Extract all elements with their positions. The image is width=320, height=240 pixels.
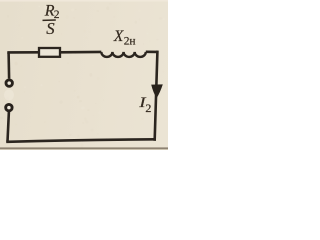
wire: top segment resistor to inductor bbox=[61, 51, 102, 54]
inductor X2n (four arcs bulging down) bbox=[101, 52, 146, 57]
wire: top segment from left corner to resistor bbox=[9, 51, 39, 54]
svg-text:S: S bbox=[46, 19, 55, 38]
svg-text:2: 2 bbox=[54, 9, 60, 21]
svg-text:2н: 2н bbox=[124, 35, 136, 47]
fraction bar bbox=[43, 19, 56, 21]
wire: bottom horizontal bbox=[8, 139, 155, 142]
paper texture speckles (decorative) bbox=[0, 3, 167, 148]
terminal (bottom, open circle) bbox=[6, 104, 12, 110]
resistor R2/S (rectangle) bbox=[39, 48, 60, 57]
wire: left vertical upper (corner to top terminal) bbox=[7, 52, 10, 78]
paper edge dark line bottom bbox=[0, 147, 168, 149]
light smudge between terminals bbox=[4, 90, 14, 101]
current arrow I2 (filled head on right wire, pointing down) bbox=[151, 84, 163, 98]
wire: right vertical bbox=[155, 52, 158, 140]
wire: left vertical lower (bottom terminal down to bottom-left corner) bbox=[8, 112, 9, 142]
terminal (top, open circle) bbox=[6, 80, 12, 86]
svg-text:X: X bbox=[113, 28, 124, 45]
svg-text:2: 2 bbox=[145, 101, 151, 115]
wire: top segment inductor to right corner bbox=[146, 50, 158, 53]
paper edge highlight top bbox=[0, 0, 168, 2]
